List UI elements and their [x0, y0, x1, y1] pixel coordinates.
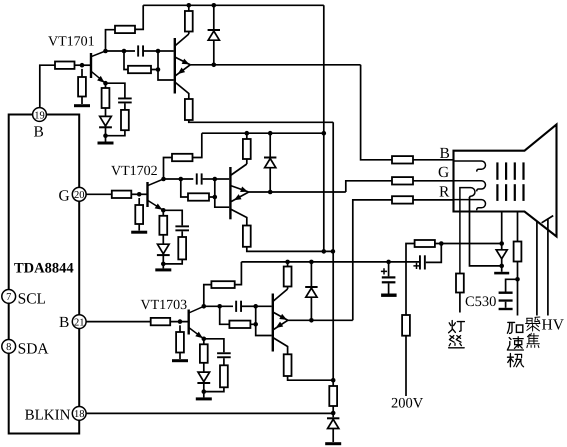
wire to VT1703 base	[170, 321, 187, 323]
wire NPN base stage1	[158, 50, 174, 52]
resistor base-gnd VT1703	[176, 325, 184, 359]
resistor heater	[456, 274, 464, 293]
pushpull NPN emitter stage1	[175, 57, 191, 67]
wire B to CRT	[413, 159, 454, 161]
label jiasuji	[507, 322, 523, 366]
node link bottom stage2	[213, 195, 218, 200]
resistor pull-up stage1	[185, 5, 193, 34]
pin 19 circle	[33, 108, 47, 122]
svg-text:18: 18	[74, 409, 85, 420]
transistor VT1703	[189, 306, 205, 340]
node branch stage2	[179, 177, 184, 182]
cathode R hook	[454, 200, 486, 211]
resistor R cathode	[392, 196, 413, 203]
resistor feed	[415, 240, 435, 247]
node diode-out stage2	[268, 190, 273, 195]
wire collector node right	[164, 178, 194, 180]
node rail-R	[187, 3, 192, 8]
pin 21 label B	[59, 314, 69, 331]
resistor base-gnd VT1702	[135, 198, 143, 231]
svg-text:21: 21	[74, 317, 85, 328]
node rail-R stage3	[285, 260, 290, 265]
node grid2 feed	[499, 241, 504, 246]
wire output stage2	[249, 191, 346, 193]
node diode-out stage1	[212, 63, 217, 68]
pushpull NPN collector stage1	[175, 34, 189, 46]
wire pin18 BLKIN	[86, 406, 333, 417]
label 200V	[391, 396, 424, 412]
pushpull bar stage3	[272, 294, 274, 352]
wire stage3 rail	[241, 261, 420, 263]
resistor collector load VT1702	[172, 154, 193, 161]
pushpull bar stage2	[229, 167, 231, 219]
pin 8 label SDA	[18, 341, 50, 358]
wire G to CRT	[413, 180, 454, 182]
wire accel electrode	[517, 212, 519, 242]
node link bottom	[156, 67, 161, 72]
node link bottom stage3	[253, 322, 258, 327]
wire output to G line	[346, 181, 392, 192]
wire NPN base stage3	[256, 305, 272, 307]
svg-text:VT1703: VT1703	[141, 298, 188, 313]
wire accel down	[517, 262, 519, 316]
svg-text:SCL: SCL	[18, 291, 46, 308]
wire RC branch	[124, 51, 128, 70]
node rail-D	[212, 3, 217, 8]
wire emitter RC branch	[106, 83, 125, 97]
svg-text:B: B	[34, 124, 44, 141]
node rail-R stage2	[245, 131, 250, 136]
wire output stage3	[288, 319, 353, 321]
resistor pull-up stage3	[284, 262, 292, 289]
wire return bus vertical	[332, 122, 334, 380]
node link top stage3	[253, 304, 258, 309]
node feed	[439, 241, 444, 246]
svg-text:TDA8844: TDA8844	[14, 261, 74, 277]
HV anode tick	[542, 216, 554, 223]
pushpull PNP emitter stage3	[273, 320, 288, 330]
node emitter-net stage2	[161, 262, 166, 267]
node base VT1703	[178, 319, 183, 324]
node rail-bus stage2	[322, 131, 327, 136]
svg-text:SDA: SDA	[18, 341, 50, 358]
wire collector up	[164, 158, 173, 180]
wire to stage3 rail	[235, 262, 242, 285]
svg-text:R: R	[439, 183, 450, 200]
node rail-cap	[386, 260, 391, 265]
pushpull NPN emitter stage2	[230, 186, 248, 195]
node emitter-net stage1	[103, 133, 108, 138]
label dengsi	[449, 321, 465, 348]
svg-text:7: 7	[6, 292, 11, 303]
node base VT1702	[137, 192, 142, 197]
node emitter VT1702	[161, 208, 166, 213]
resistor base VT1702	[112, 191, 132, 198]
label HV	[542, 317, 565, 334]
pushpull PNP collector stage1	[175, 82, 189, 99]
node collector VT1702	[161, 177, 166, 182]
capacitor coupling C2	[196, 173, 215, 184]
node branch stage3	[217, 304, 222, 309]
resistor 200V	[402, 315, 410, 336]
wire to stage2 rail	[193, 133, 202, 157]
resistor pull-down stage3	[284, 354, 292, 376]
wire pin19 to base	[40, 65, 55, 107]
node diode-out stage3	[309, 318, 314, 323]
resistor base-gnd VT1701	[78, 69, 86, 104]
ground	[172, 359, 188, 362]
resistor pull-down stage2	[243, 226, 251, 247]
pushpull PNP collector stage2	[230, 209, 246, 226]
diode BLKIN	[327, 417, 339, 442]
transistor VT1701	[91, 51, 106, 85]
wire stage2 rail	[202, 132, 324, 134]
node collector VT1701	[103, 49, 108, 54]
label B	[440, 145, 450, 162]
node branch stage1	[122, 49, 127, 54]
label VT1703	[141, 298, 188, 313]
label VT1701	[48, 35, 95, 50]
resistor pull-up stage2	[243, 133, 251, 164]
wire collector up	[106, 30, 116, 51]
grid bars	[496, 162, 524, 201]
resistor emitter VT1702	[159, 210, 167, 235]
spark gap	[496, 250, 507, 272]
wire RC branch stage2	[181, 179, 188, 197]
node emitter VT1703	[202, 337, 207, 342]
pushpull NPN collector stage3	[273, 289, 288, 302]
node collector VT1703	[202, 304, 207, 309]
pushpull PNP collector stage3	[273, 338, 288, 355]
svg-text:VT1702: VT1702	[111, 164, 158, 179]
svg-text:B: B	[440, 145, 450, 162]
capacitor emitter net stage2	[175, 225, 189, 231]
transistor VT1702	[148, 179, 164, 212]
wire to VT1702 base	[131, 193, 146, 195]
wire collector node right	[106, 50, 136, 52]
wire to VT1701 base	[75, 64, 91, 66]
node link top stage2	[213, 177, 218, 182]
diode VD2	[264, 133, 276, 192]
wire link vertical stage3	[250, 306, 271, 335]
spark gap plate	[494, 272, 509, 275]
resistor B cathode	[392, 156, 413, 163]
wire to bus line	[247, 247, 333, 252]
resistor parallel R-C stage3	[229, 321, 250, 328]
node BLKIN junction	[331, 411, 336, 416]
ground	[381, 294, 397, 297]
resistor emitter net stage3	[204, 358, 228, 391]
node heater-sparkgap	[499, 264, 504, 269]
IC label TDA8844	[14, 261, 74, 277]
pushpull NPN emitter stage3	[273, 312, 289, 322]
node return bus stage3	[331, 378, 336, 383]
wire to top rail	[135, 5, 143, 29]
capacitor emitter net stage3	[217, 352, 231, 358]
wire link vertical	[151, 51, 174, 80]
wire grid2 down	[501, 212, 503, 250]
pin 20 circle	[72, 187, 86, 201]
pin 19 label B	[34, 124, 44, 141]
wire to bus dot	[288, 376, 334, 380]
pin 18 circle	[72, 407, 86, 421]
resistor bus lower	[329, 380, 337, 406]
capacitor electrolytic C-a	[413, 255, 425, 269]
resistor parallel R-C stage2	[188, 193, 209, 200]
diode emitter net stage2	[157, 235, 170, 264]
wire output stage1	[190, 64, 360, 66]
resistor parallel R-C stage1	[128, 66, 151, 73]
wire output to R line	[353, 200, 392, 320]
ground	[74, 104, 90, 107]
wire feed to sparkgap	[435, 243, 502, 245]
node rail-D stage2	[268, 131, 273, 136]
cathode G hook	[454, 181, 486, 192]
pin 21 circle	[72, 315, 86, 329]
diode VD1	[208, 5, 220, 65]
node base VT1701	[80, 63, 85, 68]
pin 8 circle	[2, 340, 16, 354]
wire to bus-mid	[189, 120, 333, 122]
capacitor electrolytic C-b	[381, 262, 396, 294]
ground	[196, 392, 212, 401]
node bus2 cross	[331, 249, 336, 254]
wire top rail	[143, 4, 324, 6]
wire pin21 to base	[86, 321, 151, 323]
node emitter VT1701	[103, 81, 108, 86]
resistor collector load VT1703	[211, 281, 234, 288]
svg-text:C530: C530	[465, 294, 496, 310]
wire collector up	[204, 285, 212, 307]
resistor emitter net stage2	[163, 231, 186, 264]
svg-text:BLKIN: BLKIN	[25, 408, 71, 424]
resistor base VT1703	[151, 318, 171, 325]
resistor accel	[514, 242, 522, 262]
svg-text:20: 20	[74, 190, 85, 201]
ground	[98, 136, 114, 145]
pushpull NPN collector stage2	[230, 164, 246, 176]
wire supply bus vertical	[323, 5, 325, 251]
resistor G cathode	[392, 177, 413, 184]
resistor emitter VT1701	[102, 83, 110, 108]
capacitor C530	[499, 279, 518, 310]
node bus1 end	[322, 249, 327, 254]
label jujiao	[526, 317, 540, 348]
ground	[155, 264, 171, 272]
resistor base VT1701	[55, 62, 75, 69]
svg-text:8: 8	[6, 342, 11, 353]
IC U1 TDA8844 body	[9, 115, 80, 434]
label R	[439, 183, 450, 200]
resistor emitter VT1703	[200, 339, 208, 363]
wire output to B line	[361, 65, 392, 160]
pin 20 label G	[59, 188, 70, 205]
wire emitter RC branch stage3	[204, 339, 224, 353]
wire pin20 to base	[86, 193, 112, 195]
resistor collector load VT1701	[115, 26, 135, 33]
heater filament	[460, 188, 475, 274]
label VT1702	[111, 164, 158, 179]
svg-text:HV: HV	[542, 317, 565, 334]
capacitor emitter net stage1	[118, 98, 132, 104]
node emitter-net stage3	[202, 389, 207, 394]
wire link vertical stage2	[209, 179, 229, 207]
resistor emitter net stage1	[106, 103, 129, 135]
capacitor coupling C3	[235, 301, 256, 312]
resistor pull-down stage1	[185, 99, 193, 120]
diode emitter net stage3	[197, 363, 210, 392]
wire 200V riser	[406, 244, 415, 397]
wire emitter RC branch stage2	[163, 210, 182, 225]
cathode B hook	[454, 161, 486, 172]
ground	[131, 231, 147, 234]
diode emitter net stage1	[99, 108, 112, 136]
wire NPN base stage2	[215, 178, 229, 180]
wire focus	[536, 221, 538, 315]
wire R to CRT	[413, 199, 454, 201]
pin 7 label SCL	[18, 291, 46, 308]
heater right leg	[470, 197, 502, 266]
wire cap to feed node	[426, 244, 442, 263]
wire RC branch stage3	[220, 306, 230, 324]
svg-text:G: G	[438, 164, 449, 181]
svg-text:VT1701: VT1701	[48, 35, 95, 50]
CRT envelope	[454, 125, 557, 237]
node accel-C530	[515, 277, 520, 282]
wire heater terminal	[459, 293, 461, 313]
pushpull bar stage1	[174, 38, 176, 94]
wire collector node right	[204, 305, 233, 307]
node link top	[156, 49, 161, 54]
capacitor coupling C1	[137, 45, 158, 56]
pushpull PNP emitter stage2	[230, 192, 248, 203]
label G	[438, 164, 449, 181]
diode VD3	[305, 262, 317, 320]
pin 7 circle	[2, 290, 16, 304]
pin 18 label BLKIN	[25, 408, 71, 424]
node rail-D stage3	[309, 260, 314, 265]
svg-text:B: B	[59, 314, 69, 331]
label C530	[465, 294, 496, 310]
wire HV	[547, 219, 549, 315]
svg-text:G: G	[59, 188, 70, 205]
svg-text:19: 19	[34, 110, 45, 121]
ground	[325, 442, 341, 445]
pushpull PNP emitter stage1	[175, 65, 190, 77]
svg-text:200V: 200V	[391, 396, 424, 412]
